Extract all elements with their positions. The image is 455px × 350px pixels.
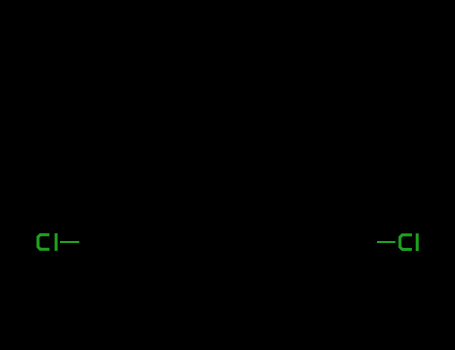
atom label Cl right: letter C: [400, 235, 412, 250]
bond C-Cl right dark half: [354, 241, 377, 243]
atom label Cl left: letter l: [55, 233, 58, 251]
bond C-Cl left green half: [60, 241, 79, 243]
double bond inner line right ring southeast edge: [312, 238, 346, 258]
double bond inner line left ring east edge: [190, 195, 192, 236]
bond C-Cl left dark half: [79, 241, 104, 243]
double bond inner line right ring northeast edge: [312, 173, 346, 193]
bond C-Cl right green half: [377, 241, 396, 243]
double bond inner line right ring west edge: [267, 195, 269, 236]
benzene ring left (3-chlorophenyl): [104, 162, 197, 268]
double bond inner line left ring southwest edge: [113, 238, 147, 258]
atom label Cl left: letter C: [38, 235, 49, 250]
double bond inner line left ring northwest edge: [113, 173, 147, 193]
bond left ring to apex CH2: [151, 66, 229, 162]
atom label Cl right: letter l: [416, 233, 419, 251]
bond right ring to apex CH2: [229, 66, 307, 162]
benzene ring right (3-chlorophenyl): [261, 162, 354, 268]
